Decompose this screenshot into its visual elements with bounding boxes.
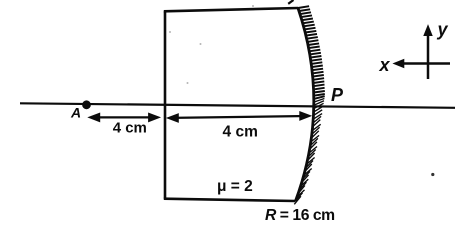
slab top edge [164,8,298,11]
svg-text:4 cm: 4 cm [223,123,258,140]
mirror hatching [294,6,325,204]
svg-text:μ = 2: μ = 2 [217,178,253,195]
svg-text:R = 16 cm: R = 16 cm [265,207,335,224]
y-axis line [427,30,430,79]
hatch mark at image top edge [288,0,293,4]
slab left face [164,11,167,198]
object point A dot [82,100,91,109]
scan speck [431,173,434,176]
dimension arrow 4cm (inside slab) [167,112,310,123]
faint specks [169,5,254,84]
svg-text:x: x [379,55,391,75]
svg-text:A: A [70,105,81,121]
svg-text:4 cm: 4 cm [113,120,147,137]
coordinate axes [394,26,450,80]
slab bottom edge [164,199,296,201]
svg-text:y: y [437,20,449,40]
silvered curved surface [296,8,314,201]
dimension arrow 4cm (A to slab) [89,113,160,121]
x-axis line [398,62,450,65]
svg-text:P: P [331,85,344,105]
optical axis [20,103,455,108]
